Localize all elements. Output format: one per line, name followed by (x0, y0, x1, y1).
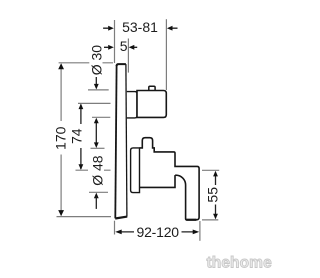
escutcheon plate (side view) (115, 64, 127, 218)
svg-text:170: 170 (52, 126, 68, 150)
dimension d48 lower arrow tail (95, 197, 97, 209)
extension line: knob axis (for 74) (78, 102, 111, 104)
svg-text:74: 74 (69, 128, 85, 144)
svg-text:Ø 30: Ø 30 (88, 45, 104, 76)
extension line: plate top (for 170) (59, 62, 113, 64)
extension line: wall plane lower (for 92-120) (114, 221, 116, 235)
dimension d30 arrows (94, 84, 99, 123)
extension line: knob bottom (for d30) (92, 116, 110, 118)
thermostat knob body (137, 91, 166, 118)
lever escutcheon sleeve (131, 148, 140, 193)
extension line: lever bottom (for 55) (202, 219, 218, 221)
extension line: lever sleeve bottom (for d48) (89, 191, 108, 193)
dimension 74 arrows (79, 104, 84, 170)
dimension 92-120 line and arrows (121, 231, 193, 233)
dimension d48 arrows (94, 142, 99, 198)
extension line: plate bottom (for 170) (57, 216, 112, 218)
dimension 74 line (80, 105, 82, 170)
thermostat knob button nub (149, 86, 155, 90)
extension line: lever sleeve top (for d48) (91, 147, 105, 149)
extension line: lever axis right (for 55) (202, 169, 219, 171)
dimension 5 arrows (104, 46, 137, 48)
dimension 53-81 arrows (103, 27, 177, 29)
extension line: lever axis left (for 74) (76, 169, 111, 171)
extension line: plate front (for 5) (127, 39, 129, 73)
thermostat knob sleeve (127, 92, 137, 118)
svg-text:5: 5 (120, 38, 128, 54)
extension line: wall plane upper (for 53-81 and 5) (114, 20, 116, 63)
dimension 170 line (60, 65, 62, 216)
dimension d30 arrow tails (95, 77, 97, 143)
extension line: lever front (for 92-120) (199, 221, 201, 241)
svg-text:thehome: thehome (207, 254, 273, 271)
svg-text:53-81: 53-81 (122, 19, 158, 35)
extension line: knob top (for d30) (88, 89, 109, 91)
dimension 55 line and arrows (215, 176, 217, 214)
dimension 170 arrows (58, 63, 64, 216)
svg-text:Ø 48: Ø 48 (90, 155, 106, 186)
lever hub lower front face and bottom edge (140, 175, 176, 187)
svg-text:92-120: 92-120 (136, 224, 179, 240)
extension line: knob front (for 53-81) (165, 19, 167, 90)
lever handle hub, top nub and arm (140, 138, 200, 220)
lever arm bottom edge (thick) (186, 219, 196, 221)
svg-text:55: 55 (205, 187, 221, 203)
